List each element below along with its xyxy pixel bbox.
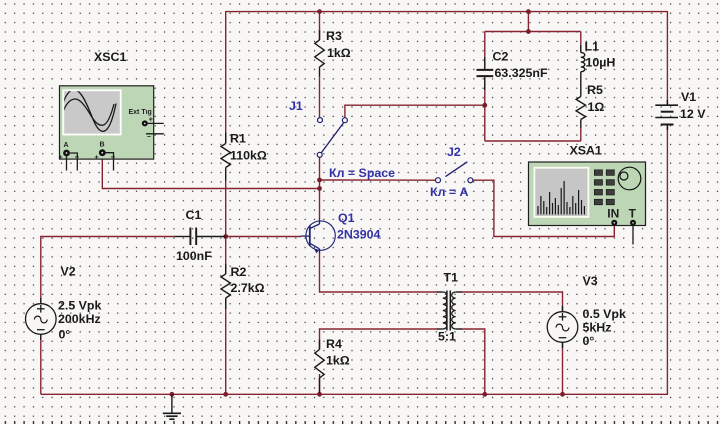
spectrum analyzer XSA1 — [529, 144, 646, 226]
wire C1 to base node — [226, 236, 301, 238]
svg-text:V2: V2 — [61, 265, 76, 279]
resistor R3 — [315, 29, 351, 77]
svg-text:L1: L1 — [585, 40, 600, 54]
svg-text:−: − — [147, 134, 151, 141]
wire emitter to T1 primary top — [320, 252, 438, 292]
svg-text:C2: C2 — [493, 50, 509, 64]
svg-text:Q1: Q1 — [338, 211, 355, 225]
svg-text:R3: R3 — [326, 29, 342, 43]
wire R2 bottom to ground rail — [225, 298, 227, 394]
svg-text:5:1: 5:1 — [438, 330, 456, 344]
battery V1 — [655, 90, 706, 130]
wire tank box top side — [485, 31, 581, 33]
wire V1 column bottom (battery to bottom rail) — [666, 125, 668, 395]
wire tank box bottom side — [485, 140, 581, 142]
svg-text:V1: V1 — [681, 90, 696, 104]
switch J2 — [436, 145, 473, 183]
junction dot C1/base node — [223, 234, 228, 239]
wire R1 column top (rail to R1) — [225, 11, 227, 144]
svg-text:2N3904: 2N3904 — [337, 228, 381, 242]
XSA1 T pin stub — [632, 226, 634, 245]
svg-text:R4: R4 — [326, 337, 342, 351]
junction dot rail/tank — [526, 9, 531, 14]
wire T1 secondary top to V3 — [461, 292, 563, 312]
svg-text:A: A — [64, 142, 69, 149]
svg-text:0.5 Vpk: 0.5 Vpk — [583, 307, 627, 321]
wire scope B to collector node — [102, 159, 319, 188]
svg-text:10µH: 10µH — [586, 56, 616, 70]
svg-text:5kHz: 5kHz — [583, 321, 612, 335]
svg-text:T1: T1 — [444, 271, 459, 285]
svg-text:100nF: 100nF — [176, 249, 212, 263]
svg-text:+: + — [59, 155, 63, 162]
junction dot tank C2 node — [482, 103, 487, 108]
source V2 — [26, 265, 102, 342]
svg-text:XSC1: XSC1 — [94, 50, 126, 64]
wire V1 column top (rail to battery) — [666, 11, 668, 105]
svg-text:+: + — [95, 154, 99, 161]
resistor R5 — [576, 83, 604, 128]
svg-text:C1: C1 — [186, 208, 202, 222]
svg-text:J2: J2 — [447, 145, 461, 159]
wire V2 bottom to ground rail — [40, 334, 42, 394]
junction dot collector/scopeB — [317, 186, 322, 191]
capacitor C1 — [174, 208, 226, 263]
source V3 — [547, 274, 626, 348]
transistor Q1 — [301, 211, 381, 253]
svg-text:Кл = A: Кл = A — [430, 185, 469, 199]
svg-text:0°: 0° — [583, 334, 595, 348]
junction dot ground rail/R2 — [223, 392, 228, 397]
wire tank box left side (C2 branch) — [484, 32, 486, 142]
svg-text:J1: J1 — [289, 99, 303, 113]
svg-text:1kΩ: 1kΩ — [327, 46, 351, 60]
label Кл = A for J2 — [430, 185, 469, 199]
junction dot ground rail/V3 — [560, 392, 565, 397]
junction dot tank top — [526, 29, 531, 34]
label Кл = Space for J1 — [329, 166, 395, 180]
svg-text:Кл = Space: Кл = Space — [329, 166, 395, 180]
wire J2 to XSA1 IN input — [473, 180, 614, 236]
scope pin stub B- — [106, 153, 114, 171]
svg-text:B: B — [100, 142, 105, 149]
junction dot collector/J2 — [317, 178, 322, 183]
svg-text:1Ω: 1Ω — [588, 100, 605, 114]
svg-text:12 V: 12 V — [680, 107, 706, 121]
svg-text:R1: R1 — [230, 132, 246, 146]
transformer T1 — [437, 271, 462, 344]
wire V3 bottom to ground rail — [562, 342, 564, 394]
svg-text:0°: 0° — [59, 328, 71, 342]
svg-text:IN: IN — [607, 206, 619, 220]
svg-text:T: T — [629, 206, 637, 220]
svg-text:R2: R2 — [231, 265, 247, 279]
wire tank box right side (L1 R5 branch) — [580, 32, 582, 142]
resistor R4 — [315, 337, 350, 394]
wire top power rail — [226, 11, 668, 13]
wire R3 to J1 pin1 — [319, 77, 321, 118]
capacitor C2 — [477, 50, 548, 91]
wire rail to tank box — [527, 12, 529, 32]
junction dot ground rail/ground — [170, 392, 175, 397]
svg-text:2.7kΩ: 2.7kΩ — [231, 281, 265, 295]
svg-text:XSA1: XSA1 — [570, 144, 602, 158]
wire collector node to J2 — [320, 179, 436, 181]
svg-text:2.5 Vpk: 2.5 Vpk — [58, 299, 102, 313]
svg-text:1kΩ: 1kΩ — [326, 354, 350, 368]
scope pin stub A+ — [66, 156, 68, 170]
svg-text:R5: R5 — [587, 83, 603, 97]
oscilloscope XSC1 — [59, 50, 164, 162]
wire R3 column top (rail to R3) — [319, 12, 321, 40]
switch J1 — [289, 99, 347, 157]
wire V2 top to C1 — [41, 237, 174, 304]
resistor R2 — [221, 264, 265, 309]
svg-text:200kHz: 200kHz — [58, 312, 101, 326]
junction dot ground rail/T1 — [482, 392, 487, 397]
svg-text:+: + — [149, 117, 153, 124]
wire T1 primary bottom to R4 top — [320, 329, 438, 350]
scope pin stub A- — [70, 153, 78, 171]
svg-text:110kΩ: 110kΩ — [230, 149, 267, 163]
wire T1 secondary bottom to ground rail — [461, 329, 485, 394]
wire J1 throw to tank (node) — [345, 105, 485, 118]
inductor L1 — [581, 40, 616, 89]
junction dot rail/R3 — [317, 9, 322, 14]
wire bottom ground rail — [41, 393, 668, 395]
junction dot ground rail/R4 — [317, 392, 322, 397]
wire R1 bottom to R2 top through C1 node — [225, 181, 227, 275]
ground — [163, 394, 181, 419]
svg-text:Ext Tıg: Ext Tıg — [129, 109, 152, 116]
wire J1 pole down to collector node — [319, 157, 321, 218]
svg-text:V3: V3 — [583, 274, 598, 288]
wire R4 bottom to ground rail — [319, 374, 321, 394]
svg-text:63.325nF: 63.325nF — [495, 66, 548, 80]
resistor R1 — [221, 132, 267, 181]
